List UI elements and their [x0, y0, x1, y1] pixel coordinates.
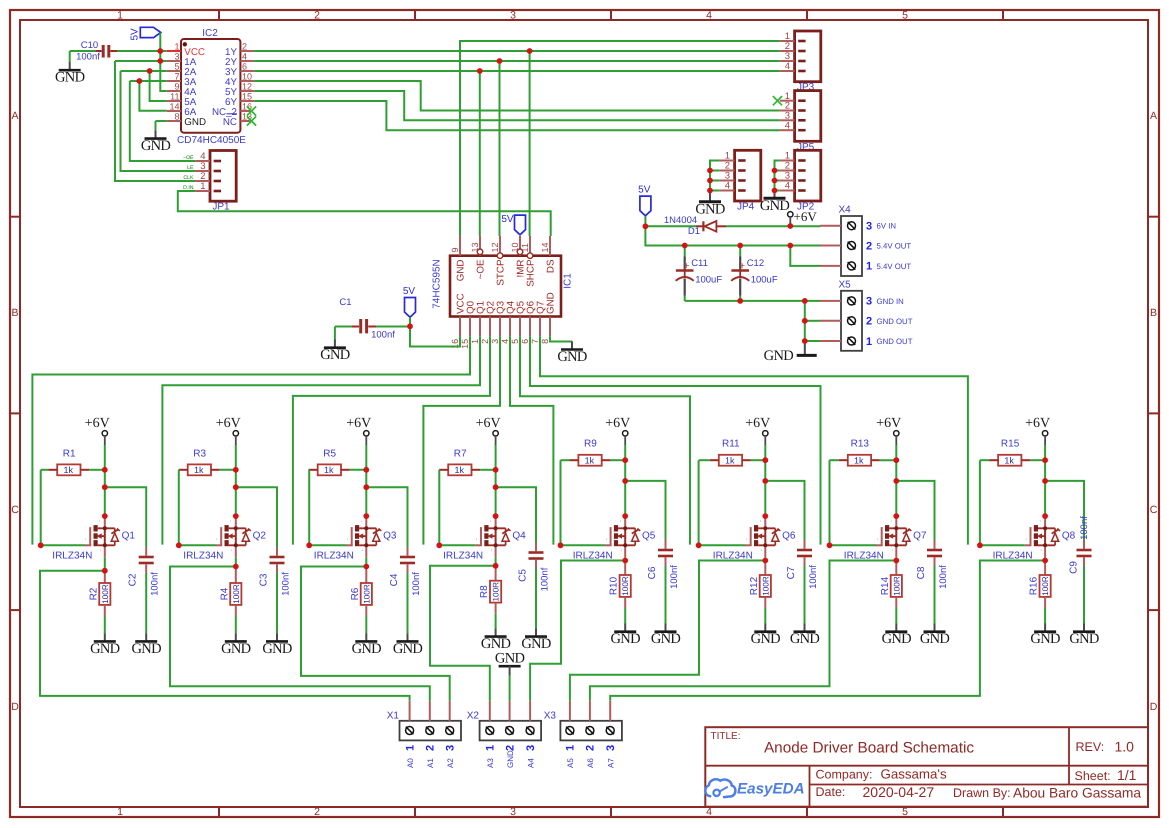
svg-text:GND: GND — [651, 631, 681, 647]
svg-text:': ' — [877, 538, 878, 544]
svg-text:100nf: 100nf — [281, 572, 292, 596]
svg-text:IRLZ34N: IRLZ34N — [52, 551, 92, 562]
svg-text:': ' — [621, 549, 622, 555]
svg-text:5: 5 — [174, 62, 179, 72]
svg-text:C2: C2 — [128, 573, 139, 586]
svg-text:': ' — [99, 520, 100, 526]
svg-text:C11: C11 — [691, 258, 708, 269]
svg-text:Q4: Q4 — [512, 531, 526, 542]
svg-text:A0: A0 — [406, 758, 415, 768]
svg-text:1: 1 — [404, 745, 416, 751]
svg-text:GND: GND — [920, 631, 950, 647]
svg-text:100R: 100R — [621, 576, 630, 596]
svg-text:5: 5 — [510, 339, 520, 344]
svg-text:100nf: 100nf — [540, 567, 551, 591]
svg-text:100nf: 100nf — [669, 565, 680, 589]
svg-text:Q3: Q3 — [383, 531, 397, 542]
svg-text:2: 2 — [242, 42, 247, 52]
svg-text:10: 10 — [242, 72, 252, 82]
svg-text:R1: R1 — [63, 448, 76, 459]
svg-text:+6V: +6V — [216, 416, 241, 431]
svg-text:A3: A3 — [486, 758, 495, 768]
svg-text:3: 3 — [510, 9, 516, 21]
svg-text:': ' — [1026, 538, 1027, 544]
svg-text:GND: GND — [764, 348, 794, 364]
svg-text:4: 4 — [725, 181, 730, 192]
svg-text:1k: 1k — [854, 456, 864, 466]
svg-text:Date:: Date: — [816, 785, 846, 799]
svg-text:X2: X2 — [467, 711, 480, 722]
svg-text:1: 1 — [866, 336, 872, 348]
svg-text:C8: C8 — [916, 566, 927, 579]
svg-text:1N4004: 1N4004 — [664, 215, 697, 226]
svg-text:1k: 1k — [1004, 456, 1014, 466]
svg-text:3: 3 — [866, 296, 872, 308]
svg-text:3: 3 — [510, 806, 516, 818]
svg-text:': ' — [231, 549, 232, 555]
svg-text:GND: GND — [695, 202, 725, 218]
svg-text:GND: GND — [557, 349, 587, 365]
svg-text:100nf: 100nf — [1079, 516, 1090, 540]
svg-text:GND: GND — [221, 641, 251, 657]
svg-text:2: 2 — [480, 339, 490, 344]
svg-text:1k: 1k — [324, 465, 334, 475]
svg-text:100R: 100R — [761, 576, 770, 596]
svg-text:Q1: Q1 — [122, 531, 136, 542]
svg-text:': ' — [490, 520, 491, 526]
svg-text:': ' — [760, 520, 761, 526]
svg-text:15: 15 — [460, 339, 470, 349]
svg-text:100nf: 100nf — [371, 330, 395, 341]
svg-text:DS: DS — [545, 259, 556, 273]
svg-text:14: 14 — [540, 242, 550, 252]
svg-text:R4: R4 — [219, 587, 230, 600]
svg-text:11: 11 — [170, 92, 179, 102]
svg-text:1.0: 1.0 — [1115, 739, 1135, 755]
svg-text:C3: C3 — [259, 573, 270, 586]
svg-text:5V: 5V — [638, 185, 651, 196]
svg-text:6V IN: 6V IN — [877, 222, 897, 231]
svg-text:+6V: +6V — [745, 416, 770, 431]
svg-text:R5: R5 — [323, 448, 336, 459]
svg-text:3: 3 — [525, 745, 537, 751]
svg-text:LE: LE — [187, 165, 194, 171]
svg-text:100R: 100R — [362, 584, 371, 604]
svg-text:GND: GND — [455, 260, 466, 282]
svg-text:': ' — [230, 520, 231, 526]
svg-text:A: A — [11, 110, 18, 122]
svg-text:6: 6 — [242, 62, 247, 72]
svg-text:C9: C9 — [1069, 561, 1080, 574]
svg-text:100R: 100R — [1041, 576, 1050, 596]
svg-text:GND: GND — [352, 641, 382, 657]
svg-text:14: 14 — [169, 102, 179, 112]
svg-text:TITLE:: TITLE: — [711, 731, 741, 742]
svg-text:GND: GND — [1069, 631, 1099, 647]
svg-text:Drawn By:: Drawn By: — [953, 786, 1011, 800]
svg-text:R13: R13 — [851, 439, 870, 450]
svg-text:1/1: 1/1 — [1117, 767, 1137, 783]
svg-text:+6V: +6V — [85, 416, 110, 431]
svg-text:': ' — [1040, 520, 1041, 526]
svg-text:': ' — [746, 538, 747, 544]
svg-text:+6V: +6V — [346, 416, 371, 431]
svg-text:1: 1 — [866, 261, 872, 273]
svg-text:~OE: ~OE — [475, 259, 486, 279]
svg-text:GND: GND — [882, 631, 912, 647]
svg-text:GND: GND — [90, 641, 120, 657]
svg-text:100nf: 100nf — [411, 572, 422, 596]
svg-text:GND OUT: GND OUT — [877, 317, 913, 326]
svg-text:GND IN: GND IN — [877, 297, 904, 306]
svg-text:D: D — [1150, 701, 1158, 713]
svg-text:2: 2 — [585, 745, 597, 751]
svg-text:3: 3 — [445, 745, 457, 751]
svg-text:4: 4 — [785, 181, 790, 192]
svg-text:IRLZ34N: IRLZ34N — [183, 551, 223, 562]
svg-text:GND: GND — [393, 641, 423, 657]
svg-text:R8: R8 — [479, 585, 490, 598]
svg-text:100nf: 100nf — [808, 565, 819, 589]
svg-text:A5: A5 — [566, 758, 575, 768]
svg-text:D1: D1 — [688, 226, 700, 237]
svg-text:X5: X5 — [839, 279, 852, 290]
svg-text:Q6: Q6 — [782, 531, 796, 542]
svg-text:GND: GND — [751, 631, 781, 647]
svg-text:GND: GND — [132, 641, 162, 657]
svg-text:X1: X1 — [387, 711, 400, 722]
svg-text:GND: GND — [506, 750, 515, 768]
svg-text:R15: R15 — [1001, 439, 1020, 450]
svg-text:A2: A2 — [446, 758, 455, 768]
svg-text:3: 3 — [174, 52, 179, 62]
svg-text:C4: C4 — [389, 573, 400, 586]
svg-text:5.4V OUT: 5.4V OUT — [877, 242, 912, 251]
svg-text:+6V: +6V — [876, 416, 901, 431]
svg-text:+: + — [684, 261, 690, 272]
svg-text:1: 1 — [470, 339, 480, 344]
svg-text:GND: GND — [55, 70, 85, 86]
svg-text:GND: GND — [760, 198, 790, 214]
svg-text:+6V: +6V — [605, 416, 630, 431]
svg-text:R3: R3 — [193, 448, 206, 459]
svg-text:': ' — [476, 538, 477, 544]
svg-text:GND: GND — [184, 117, 206, 128]
svg-text:2: 2 — [866, 316, 872, 328]
svg-text:': ' — [1041, 549, 1042, 555]
svg-text:R11: R11 — [722, 439, 740, 450]
svg-text:GND: GND — [481, 636, 511, 652]
svg-text:': ' — [347, 538, 348, 544]
svg-text:IC2: IC2 — [202, 28, 218, 39]
svg-text:X3: X3 — [544, 711, 557, 722]
svg-text:GND: GND — [611, 631, 641, 647]
svg-text:1k: 1k — [725, 456, 735, 466]
svg-text:GND: GND — [545, 292, 556, 314]
svg-text:GND: GND — [262, 641, 292, 657]
svg-text:': ' — [620, 520, 621, 526]
svg-text:3: 3 — [866, 221, 872, 233]
svg-text:1: 1 — [200, 181, 205, 192]
svg-text:CD74HC4050E: CD74HC4050E — [177, 135, 246, 146]
svg-text:15: 15 — [242, 92, 252, 102]
svg-text:C6: C6 — [647, 566, 658, 579]
svg-text:C12: C12 — [747, 258, 764, 269]
svg-text:1: 1 — [485, 745, 497, 751]
svg-text:9: 9 — [174, 82, 179, 92]
svg-text:5V: 5V — [130, 28, 141, 41]
svg-text:100uF: 100uF — [695, 275, 722, 286]
svg-text:A4: A4 — [526, 758, 535, 768]
svg-text:GND OUT: GND OUT — [877, 337, 913, 346]
svg-text:': ' — [606, 538, 607, 544]
svg-text:100R: 100R — [101, 584, 110, 604]
svg-text:9: 9 — [450, 247, 460, 252]
svg-text:4: 4 — [706, 9, 712, 21]
svg-text:Company:: Company: — [816, 767, 873, 781]
svg-text:': ' — [361, 520, 362, 526]
svg-text:1: 1 — [565, 745, 577, 751]
svg-text:R16: R16 — [1029, 576, 1040, 595]
svg-text:5V: 5V — [501, 214, 514, 225]
svg-text:1: 1 — [174, 42, 179, 52]
svg-text:100uF: 100uF — [751, 275, 778, 286]
svg-text:100nf: 100nf — [76, 52, 100, 63]
svg-text:IRLZ34N: IRLZ34N — [314, 551, 354, 562]
svg-text:': ' — [362, 549, 363, 555]
svg-text:7: 7 — [530, 339, 540, 344]
svg-text:~OE: ~OE — [183, 155, 194, 161]
svg-text:100R: 100R — [232, 584, 241, 604]
svg-text:+: + — [739, 261, 745, 272]
svg-text:1k: 1k — [585, 456, 595, 466]
svg-text:IRLZ34N: IRLZ34N — [443, 551, 483, 562]
svg-text:GND: GND — [320, 347, 350, 363]
svg-text:+6V: +6V — [476, 416, 501, 431]
svg-text:2: 2 — [425, 745, 437, 751]
svg-text:IC1: IC1 — [563, 273, 574, 289]
svg-text:GND: GND — [1030, 631, 1060, 647]
svg-text:R6: R6 — [350, 587, 361, 600]
svg-text:R14: R14 — [880, 576, 891, 595]
svg-text:': ' — [85, 538, 86, 544]
svg-text:8: 8 — [540, 339, 550, 344]
svg-text:': ' — [491, 549, 492, 555]
svg-text:100nf: 100nf — [150, 572, 161, 596]
svg-text:+6V: +6V — [794, 209, 818, 224]
svg-text:5V: 5V — [403, 286, 416, 297]
svg-text:D: D — [11, 701, 19, 713]
svg-text:': ' — [892, 549, 893, 555]
svg-text:1k: 1k — [454, 465, 464, 475]
svg-text:Abou Baro Gassama: Abou Baro Gassama — [1013, 786, 1141, 801]
svg-text:EasyEDA: EasyEDA — [737, 781, 805, 798]
svg-text:C7: C7 — [786, 566, 797, 579]
svg-text:3: 3 — [605, 745, 617, 751]
svg-text:B: B — [11, 307, 18, 319]
svg-text:1k: 1k — [63, 465, 73, 475]
svg-text:': ' — [761, 549, 762, 555]
svg-text:4: 4 — [785, 61, 790, 72]
svg-text:Q8: Q8 — [1062, 531, 1076, 542]
svg-text:+6V: +6V — [1025, 416, 1050, 431]
svg-text:C5: C5 — [518, 569, 529, 582]
svg-text:Q5: Q5 — [642, 531, 656, 542]
svg-text:8: 8 — [174, 112, 179, 122]
svg-text:100nf: 100nf — [938, 565, 949, 589]
svg-text:1: 1 — [117, 806, 123, 818]
svg-text:4: 4 — [500, 339, 510, 344]
svg-text:12: 12 — [490, 242, 500, 252]
svg-text:GND: GND — [790, 631, 820, 647]
svg-text:': ' — [216, 538, 217, 544]
svg-text:D.IN: D.IN — [183, 185, 194, 191]
svg-text:1: 1 — [117, 9, 123, 21]
svg-text:2: 2 — [504, 745, 516, 751]
svg-text:4: 4 — [242, 52, 247, 62]
svg-text:': ' — [100, 549, 101, 555]
svg-text:A6: A6 — [586, 758, 595, 768]
svg-text:A7: A7 — [606, 758, 615, 768]
svg-text:C1: C1 — [339, 297, 351, 308]
svg-text:6: 6 — [520, 339, 530, 344]
svg-text:B: B — [1150, 307, 1157, 319]
svg-text:SHCP: SHCP — [525, 259, 536, 287]
svg-text:REV:: REV: — [1076, 740, 1105, 754]
svg-text:100R: 100R — [892, 576, 901, 596]
svg-text:Q2: Q2 — [253, 531, 267, 542]
svg-text:1k: 1k — [194, 465, 204, 475]
svg-text:4: 4 — [785, 120, 790, 131]
svg-text:STCP: STCP — [495, 259, 506, 286]
svg-text:': ' — [891, 520, 892, 526]
svg-text:R9: R9 — [584, 439, 597, 450]
svg-text:2: 2 — [314, 806, 320, 818]
svg-text:A: A — [1150, 110, 1157, 122]
svg-text:R7: R7 — [454, 448, 467, 459]
svg-text:5.4V OUT: 5.4V OUT — [877, 262, 912, 271]
svg-text:R10: R10 — [609, 576, 620, 595]
svg-text:12: 12 — [242, 82, 252, 92]
svg-text:3: 3 — [490, 339, 500, 344]
svg-text:C: C — [11, 504, 19, 516]
svg-text:Q7: Q7 — [913, 531, 927, 542]
svg-text:5: 5 — [902, 9, 908, 21]
svg-text:2020-04-27: 2020-04-27 — [863, 784, 935, 800]
svg-text:CLK: CLK — [183, 175, 194, 181]
svg-text:Gassama's: Gassama's — [881, 767, 947, 782]
svg-text:Sheet:: Sheet: — [1075, 769, 1111, 783]
svg-text:R12: R12 — [749, 576, 760, 595]
svg-text:2: 2 — [866, 240, 872, 252]
svg-text:7: 7 — [174, 72, 179, 82]
svg-text:100R: 100R — [492, 582, 501, 602]
svg-text:Anode Driver Board Schematic: Anode Driver Board Schematic — [764, 740, 974, 757]
svg-text:R2: R2 — [88, 587, 99, 600]
svg-text:GND: GND — [521, 636, 551, 652]
svg-text:GND: GND — [141, 138, 171, 154]
svg-text:X4: X4 — [839, 205, 852, 216]
svg-text:NC: NC — [223, 117, 237, 128]
svg-text:C: C — [1150, 504, 1158, 516]
svg-text:GND: GND — [495, 651, 525, 667]
svg-text:A1: A1 — [426, 758, 435, 768]
svg-text:2: 2 — [314, 9, 320, 21]
svg-text:C10: C10 — [81, 40, 98, 51]
svg-text:JP4: JP4 — [737, 202, 755, 213]
svg-text:74HC595N: 74HC595N — [432, 259, 443, 308]
